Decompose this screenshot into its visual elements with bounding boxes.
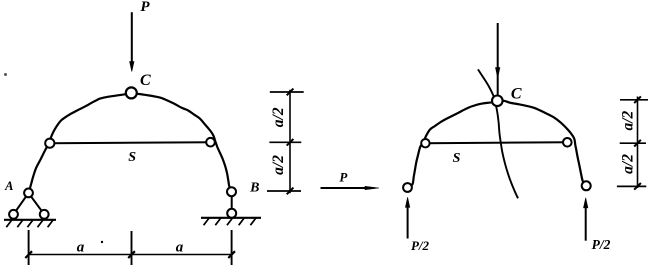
support B ground line [201,217,261,219]
svg-text:P: P [339,169,348,184]
support A ground line [4,219,56,221]
svg-text:B: B [249,180,259,195]
right height dimension slashes [634,96,641,189]
svg-text:P: P [140,0,150,15]
svg-text:C: C [140,72,151,89]
hinge circle support B top [227,187,236,196]
hinge circle tie-left (left diagram) [45,139,54,148]
hinge circle tie-right (right diagram) [563,138,572,147]
svg-text:a/2: a/2 [270,107,287,127]
support A hatching [6,220,53,227]
bottom dimension line [29,254,232,256]
left height dimension vertical line [289,90,291,193]
support A legs [14,193,45,214]
load arrow on right arch [496,23,500,96]
svg-text:a/2: a/2 [270,155,287,175]
load arrow P on left arch [130,12,134,71]
svg-text:a/2: a/2 [619,154,636,174]
roller circle B bottom [227,209,236,218]
svg-text:S: S [128,150,136,165]
speck dot near a label [101,241,103,243]
right height dimension ticks [617,100,648,187]
hinge circle right arch left end [403,183,412,192]
right height dimension vertical line [637,97,639,189]
svg-text:P/2: P/2 [592,237,611,252]
right reaction arrow P/2 [584,198,588,241]
hinge circle tie-left (right diagram) [421,139,429,147]
hinge circle right arch right end [582,181,591,190]
support B hatching [204,218,256,225]
svg-text:C: C [511,86,522,103]
support B link [231,192,233,214]
left height dimension slashes [287,89,294,195]
tie rod S left diagram [50,142,211,143]
hinge circle C right [492,96,503,107]
roller circle A bottom-right [40,210,49,219]
hinge circle tie-right (left diagram) [206,138,215,147]
right arch rib [408,101,587,188]
svg-text:A: A [4,179,13,193]
section cut curve through C [478,69,518,198]
left arch rib ACB [29,93,232,193]
middle arrow P head [365,186,379,189]
hinge circle C left [126,87,137,98]
hinge circle support A top [24,189,33,198]
speck dot left margin [4,73,7,76]
svg-text:a: a [176,239,184,255]
svg-text:a/2: a/2 [619,110,636,130]
bottom dimension extension lines [29,230,232,265]
left height dimension ticks [267,92,304,191]
roller circle A bottom-left [9,210,18,219]
svg-text:P/2: P/2 [411,238,430,253]
bottom dimension slash ticks [25,251,235,258]
middle arrow P shaft [321,187,368,189]
svg-text:a: a [77,239,85,255]
tie rod S right diagram [425,141,567,144]
svg-text:S: S [453,151,461,166]
left reaction arrow P/2 [405,197,409,238]
